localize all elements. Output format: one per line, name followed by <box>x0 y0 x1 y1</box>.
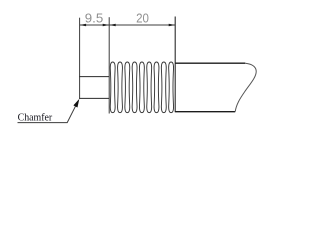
chamfer leader arrowhead <box>73 99 79 108</box>
thread coil loop 8 <box>161 62 166 113</box>
arrowhead right of 9.5 dim <box>103 24 110 27</box>
chamfer leader underline and diagonal <box>18 101 79 123</box>
svg-text:20: 20 <box>136 12 149 26</box>
thread coil loop 9 <box>169 62 174 113</box>
body bottom edge <box>175 111 235 113</box>
dimension line <box>80 24 176 26</box>
thread coil loop 5 <box>139 62 144 113</box>
body right end S-curve <box>235 63 256 111</box>
arrowhead right of 20 dim <box>169 24 176 27</box>
thread coil loop 6 <box>147 62 152 113</box>
arrowhead left of 9.5 dim <box>80 24 87 27</box>
thread coil loop 7 <box>154 62 159 113</box>
svg-text:9.5: 9.5 <box>85 12 104 26</box>
extension line middle / thread start <box>108 17 110 113</box>
body top edge <box>175 62 245 64</box>
pilot cylinder top edge <box>79 76 109 78</box>
arrowhead left of 20 dim <box>109 24 116 27</box>
thread coil loop 1 <box>110 62 115 113</box>
extension line left <box>79 18 81 99</box>
thread coil loop 4 <box>132 62 137 113</box>
svg-text:Chamfer: Chamfer <box>18 112 53 123</box>
thread coil loop 2 <box>118 62 123 113</box>
thread coil loop 3 <box>125 62 130 113</box>
pilot cylinder bottom edge <box>79 97 109 99</box>
extension line right / thread shoulder <box>174 17 176 113</box>
